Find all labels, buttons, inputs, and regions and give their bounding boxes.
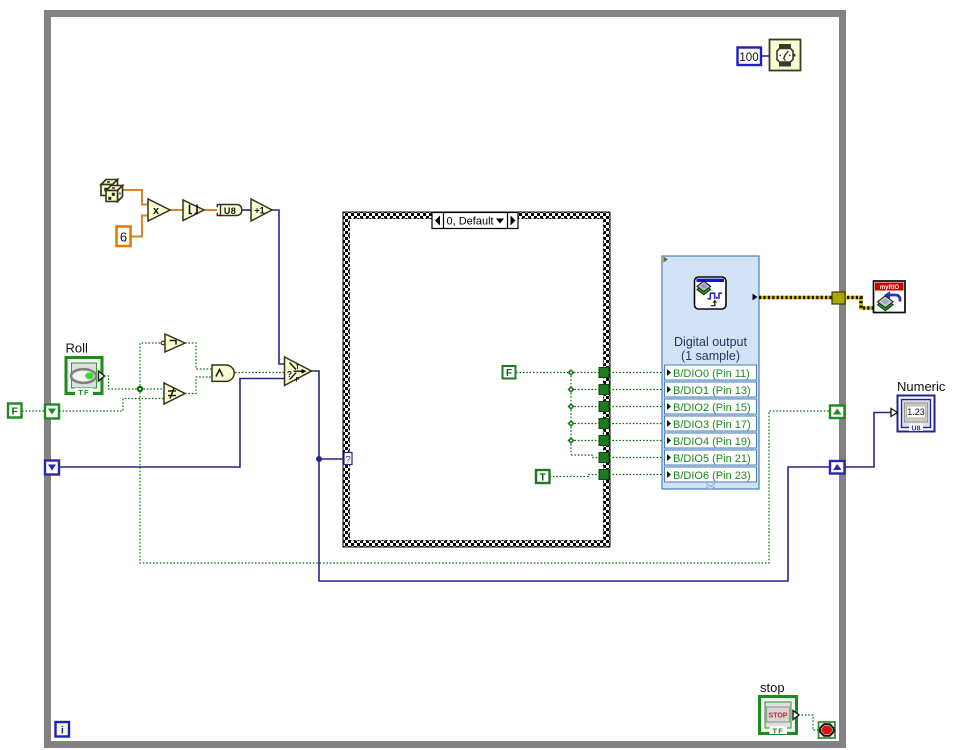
wire blue 100 to Wait [761, 55, 770, 57]
U8 conversion [217, 205, 242, 216]
select node [285, 357, 312, 386]
svg-text:i: i [61, 725, 64, 737]
Wait ms timer [770, 40, 801, 71]
svg-text:x: x [153, 205, 160, 217]
wire green left shift register to not-equal [59, 399, 164, 412]
svg-text:F: F [506, 368, 512, 379]
case structure border [343, 212, 610, 547]
Roll label [66, 341, 89, 356]
svg-text:+1: +1 [254, 206, 264, 216]
floor round-down function [183, 200, 204, 221]
error wire express VI to myRIO close [759, 298, 874, 309]
svg-text:stop: stop [760, 680, 785, 695]
svg-text:(1 sample): (1 sample) [681, 349, 740, 363]
not-equal gate [164, 383, 185, 404]
DIO rows [665, 365, 757, 490]
fanout junction markers [567, 369, 574, 444]
express VI icon [695, 277, 727, 309]
svg-text:B/DIO2 (Pin 15): B/DIO2 (Pin 15) [673, 402, 751, 414]
wire green F constant to left shift register [22, 410, 45, 412]
right shift register blue (up) [830, 461, 845, 474]
random number dice [101, 180, 123, 202]
svg-text:myRIO: myRIO [880, 285, 900, 291]
wire green junction to not-equal top input [140, 388, 164, 390]
case output tunnels [599, 368, 609, 480]
Roll button [66, 358, 105, 398]
svg-text:T: T [296, 364, 300, 371]
svg-text:B/DIO1 (Pin 13): B/DIO1 (Pin 13) [673, 385, 751, 397]
iteration terminal [56, 722, 70, 737]
left shift register blue (down) [45, 461, 59, 475]
svg-text:U8: U8 [224, 206, 236, 216]
wire green Roll to junction [104, 376, 140, 389]
wire blue shift register to select f input [59, 379, 285, 468]
multiply function [148, 199, 170, 221]
wire orange dice to multiply [122, 190, 148, 205]
wire green junction up to NOT input [140, 343, 162, 389]
right shift register green (up) [830, 406, 845, 419]
myRIO close VI [874, 281, 906, 313]
case selector label [432, 213, 518, 229]
svg-text:0, Default: 0, Default [447, 216, 494, 228]
wire green NOT to AND [185, 343, 212, 369]
stop label [760, 680, 785, 695]
wire blue right shift register to Numeric [845, 413, 891, 468]
T constant inside case [536, 470, 550, 484]
NOT gate [161, 334, 185, 352]
svg-text:?: ? [345, 455, 350, 466]
wires green tunnels to DIO rows [609, 373, 665, 475]
wire green T to tunnel row7 [550, 475, 600, 477]
wire green F to tunnel row1 with fanout [516, 373, 599, 458]
svg-text:U8: U8 [912, 426, 921, 433]
svg-text:Roll: Roll [66, 341, 89, 356]
svg-text:B/DIO4 (Pin 19): B/DIO4 (Pin 19) [673, 436, 751, 448]
svg-text:T: T [540, 473, 546, 484]
svg-text:Numeric: Numeric [897, 379, 946, 394]
wire green stop to loop condition [798, 715, 818, 730]
svg-text:B/DIO0 (Pin 11): B/DIO0 (Pin 11) [673, 368, 750, 380]
svg-text:F: F [12, 407, 18, 418]
F constant inside case [503, 366, 516, 379]
wire green junction down to right shift register [140, 389, 830, 563]
error tunnel on loop border [832, 292, 845, 304]
loop condition terminal [819, 722, 836, 738]
left shift register green (down) [45, 405, 59, 419]
wire orange floor to U8 [204, 209, 217, 211]
svg-text:TF: TF [773, 726, 785, 735]
Digital output express VI [662, 256, 759, 489]
F constant main [8, 404, 22, 418]
case selector terminal [344, 453, 352, 466]
svg-text:STOP: STOP [769, 713, 788, 720]
Numeric label [897, 379, 946, 394]
svg-text:6: 6 [120, 230, 127, 245]
wire blue increment to select t input [272, 210, 285, 364]
svg-text:B/DIO6 (Pin 23): B/DIO6 (Pin 23) [673, 470, 751, 482]
svg-text:B/DIO3 (Pin 17): B/DIO3 (Pin 17) [673, 419, 751, 431]
svg-text:F: F [296, 377, 300, 384]
stop button [760, 697, 800, 736]
wire green not-equal to AND [185, 377, 212, 394]
Numeric indicator [891, 396, 935, 433]
wire blue select output to case selector and right shift register [311, 371, 830, 581]
svg-text:1.23: 1.23 [907, 407, 925, 417]
increment function [251, 199, 272, 221]
AND gate [212, 365, 234, 381]
constant 6 [117, 227, 131, 247]
junction marker [137, 386, 143, 392]
wire green AND to select s input [235, 372, 285, 374]
wire blue U8 to increment [242, 209, 251, 211]
express VI caption [674, 335, 747, 363]
svg-text:100: 100 [739, 52, 758, 64]
wire orange 6 to multiply [131, 216, 148, 237]
constant 100 [738, 48, 762, 66]
svg-text:TF: TF [78, 388, 90, 397]
svg-text:Digital output: Digital output [674, 335, 747, 349]
svg-text:B/DIO5 (Pin 21): B/DIO5 (Pin 21) [673, 453, 751, 465]
wire orange multiply to floor [170, 209, 183, 211]
